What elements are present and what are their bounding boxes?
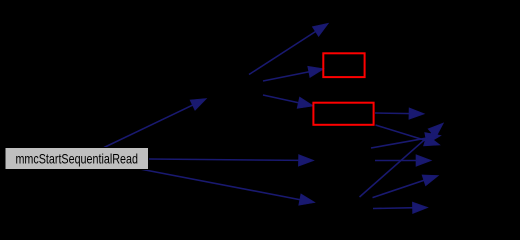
edge node2->node3	[249, 23, 329, 74]
edge node7->node12	[373, 175, 439, 198]
node mmcStartSequentialRead (current node, grey fill)	[5, 148, 149, 170]
edge node6->node8	[375, 155, 432, 167]
edge node7->node13	[373, 202, 428, 214]
edge mmcStartSequentialRead->node2	[104, 99, 207, 148]
edge node2->node4 (red box 1)	[263, 66, 324, 81]
edge mmcStartSequentialRead->node6	[149, 155, 314, 167]
edge node2->node5 (red box 2)	[263, 95, 314, 108]
edge node7->node11	[360, 123, 444, 197]
edge node5->node14	[375, 108, 425, 120]
edge node6->node9	[371, 133, 441, 149]
svg-text:mmcStartSequentialRead: mmcStartSequentialRead	[15, 151, 138, 166]
edge node5->node10	[376, 125, 441, 146]
node5 red box 2 (truncated node)	[313, 103, 373, 125]
edge mmcStartSequentialRead->node7	[140, 169, 315, 205]
node4 red box 1 (truncated node)	[323, 53, 364, 77]
